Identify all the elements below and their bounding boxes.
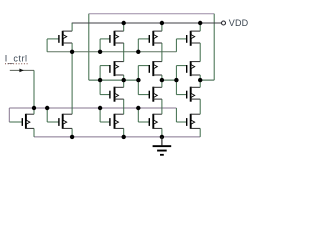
wire: M15 source down to ground [71, 128, 73, 137]
wire: col4 gate feed row A to mid rail [175, 39, 177, 52]
wire: col2 gate feed row B from stage node [99, 66, 101, 81]
wire: col4 stage node down to C drain [199, 80, 201, 87]
wire: col4 A drain to VDD rail [199, 23, 201, 31]
wire: M15 gate feed from rail2 [46, 108, 48, 122]
wire: col4 gate feed row B from stage node [175, 66, 177, 81]
wire: input drop to bias rail [33, 70, 35, 108]
wire: rail2 end drop to M13 gate [175, 108, 177, 122]
transistor M2 [100, 31, 124, 46]
transistor M11 [100, 114, 124, 129]
wire: M1 source to mid rail junction [71, 43, 73, 52]
wire: col2 A source down to B drain [123, 43, 125, 62]
transistor M6 [138, 61, 162, 76]
transistor M4 [176, 31, 200, 46]
wire: VDD output rail [72, 22, 222, 24]
wire: VDD loop left vertical [88, 14, 90, 80]
transistor M14 input diode [9, 114, 34, 129]
transistor M9 [138, 87, 162, 102]
wire: input current lead with arrowhead [10, 69, 34, 71]
wire: col3 A drain to VDD rail [161, 23, 163, 31]
wire: col2 B source down to stage node [123, 75, 125, 80]
wire: col2 stage node down to C drain [123, 80, 125, 87]
svg-text:VDD: VDD [229, 18, 249, 28]
node: stage node junctions [98, 78, 102, 82]
transistor M5 [100, 61, 124, 76]
wire: col3 gate feed row A to mid rail [137, 39, 139, 52]
transistor M10 [176, 87, 200, 102]
wire: M1 drain up to VDD rail [71, 23, 73, 31]
wire: stage node segment 1 [89, 79, 139, 81]
transistor M3 [138, 31, 162, 46]
wire: col3 gate feed row D [137, 108, 139, 122]
wire: stage node segment 3 [200, 79, 214, 81]
wire: M14 gate loop [8, 108, 10, 122]
wire: col2 A drain to VDD rail [123, 23, 125, 31]
wire: ground rail [34, 136, 200, 138]
wire: col2 gate feed row D [99, 108, 101, 122]
wire: VDD loop right vertical [213, 14, 215, 80]
node: rail2 junctions [32, 106, 36, 110]
wire: col3 gate feed row C [137, 80, 139, 95]
wire: col4 gate feed row C [175, 80, 177, 95]
wire: col3 D source down to ground rail [161, 128, 163, 137]
node: VDD rail junctions [122, 21, 126, 25]
wire: mid rail junction down to M15 drain [71, 52, 73, 114]
wire: VDD loop top rail [89, 13, 214, 15]
ground [153, 137, 172, 156]
wire: col4 D source down to ground rail [199, 128, 201, 137]
wire: M1 gate elbow down to mid rail [46, 39, 48, 52]
transistor M15 [47, 114, 72, 129]
svg-text:I_ctrl: I_ctrl [5, 54, 28, 64]
wire: col3 C source down to D drain [161, 99, 163, 114]
wire: col2 C source down to D drain [123, 99, 125, 114]
wire: col2 gate feed row A to mid rail [99, 39, 101, 52]
wire: col3 gate feed row B from stage node [137, 66, 139, 81]
transistor M8 [100, 87, 124, 102]
wire: M14 source down to ground [33, 128, 35, 137]
wire: col4 A source down to B drain [199, 43, 201, 62]
transistor M13 [176, 114, 200, 129]
wire: col2 D source down to ground rail [123, 128, 125, 137]
node: ground rail junctions [70, 135, 74, 139]
wire: stage node segment 2 [162, 79, 177, 81]
transistor M7 [176, 61, 200, 76]
wire: col2 gate feed row C [99, 80, 101, 95]
wire: NMOS bias rail 2 [9, 107, 176, 109]
node: mid rail junctions [70, 50, 74, 54]
node VDD terminal [222, 21, 226, 25]
wire: M14 drain up to rail2 junction [33, 108, 35, 114]
transistor M12 [138, 114, 162, 129]
wire: col3 B source down to stage node [161, 75, 163, 80]
wire: col4 B source down to stage node [199, 75, 201, 80]
transistor M1 top-left mirror [47, 31, 72, 46]
wire: col3 stage node down to C drain [161, 80, 163, 87]
wire: col3 A source down to B drain [161, 43, 163, 62]
wire: col4 C source down to D drain [199, 99, 201, 114]
wire: mirror gate mid rail [47, 51, 176, 53]
